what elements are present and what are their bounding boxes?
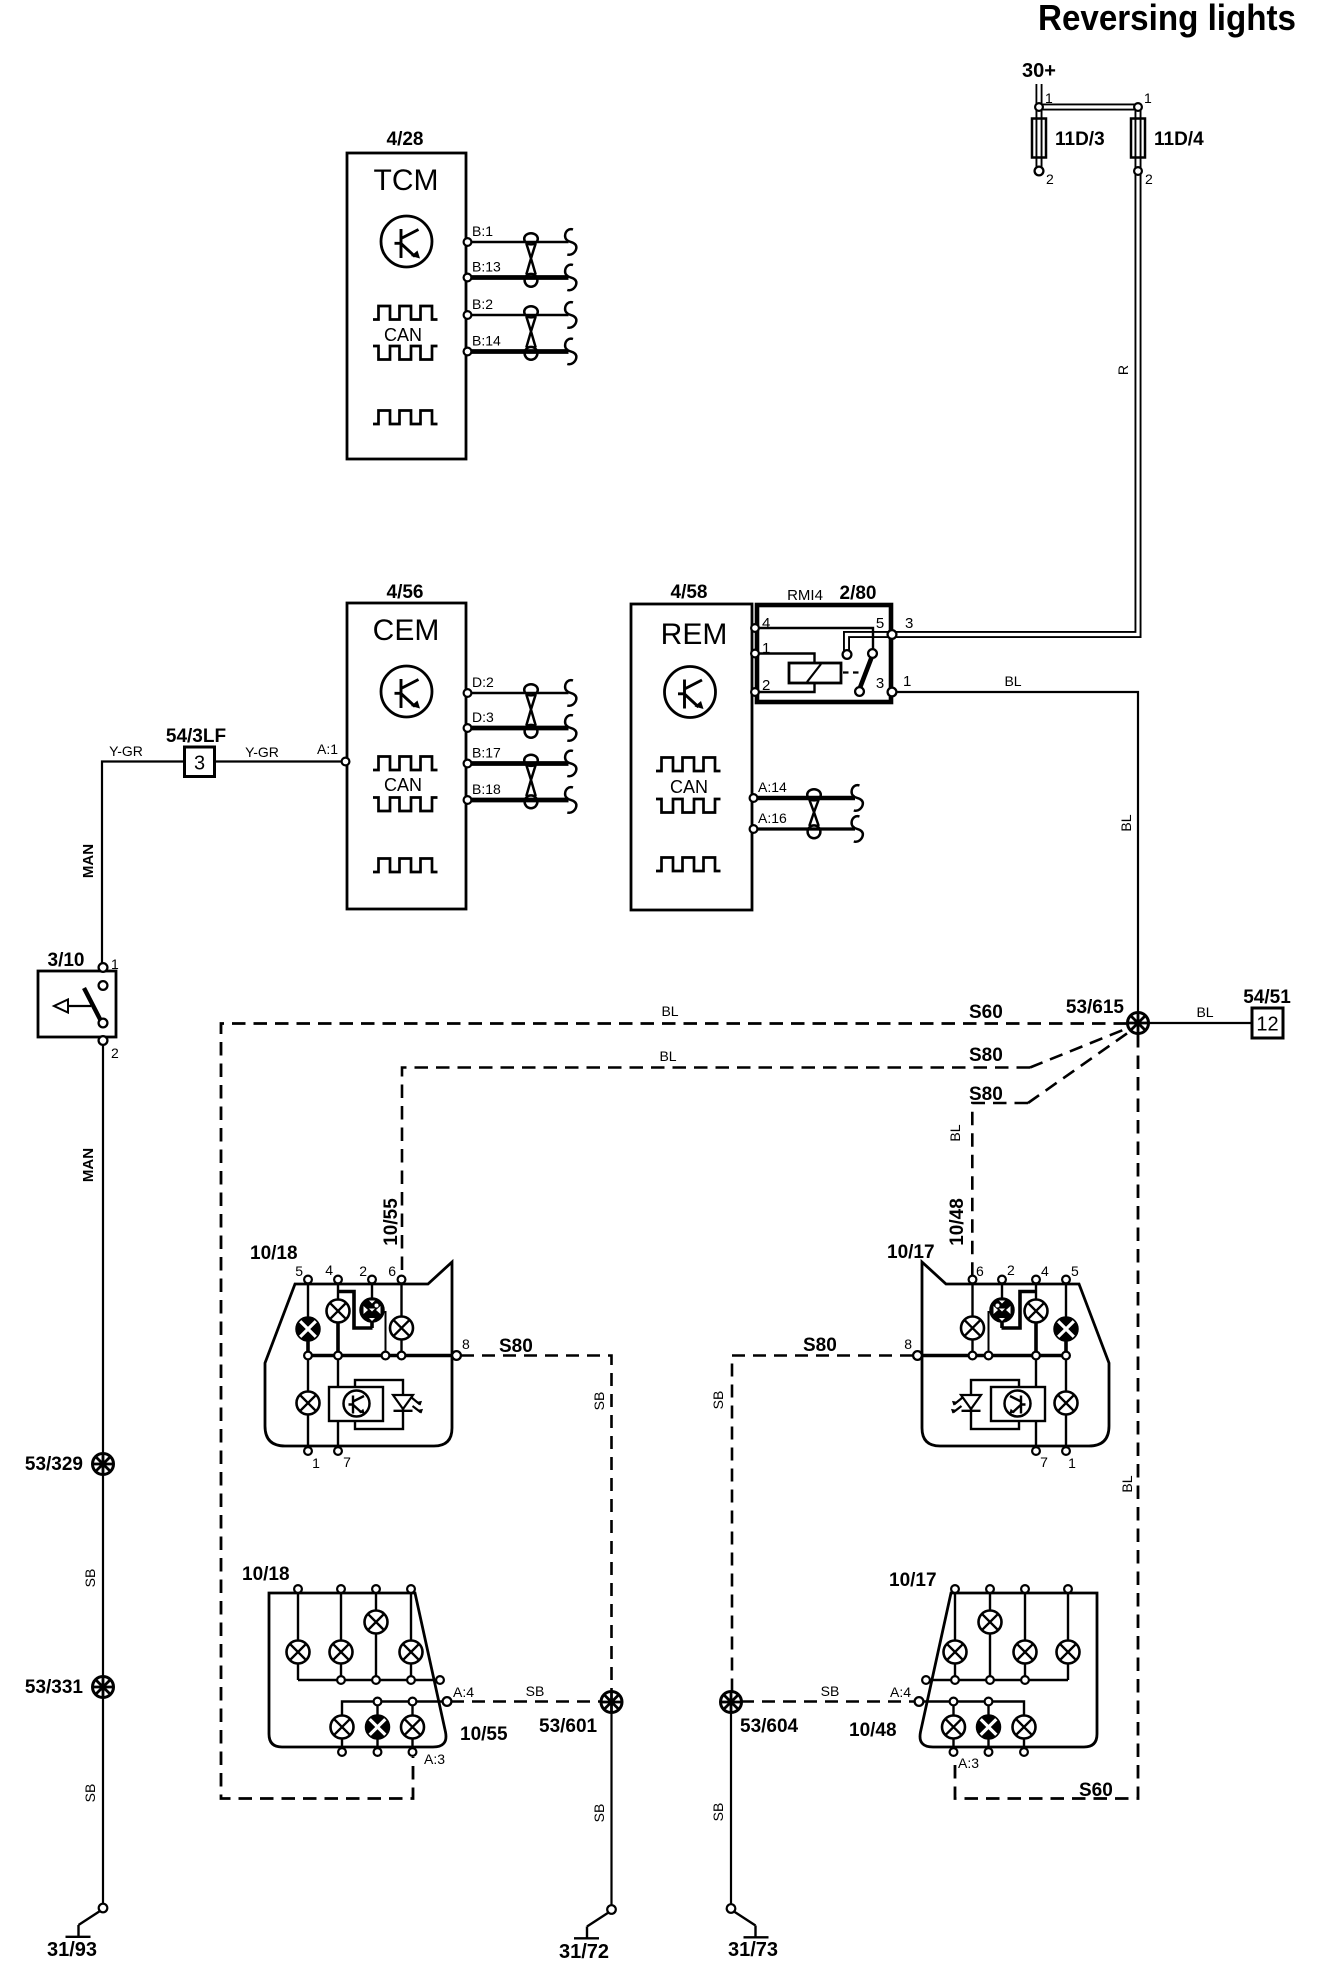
svg-text:53/329: 53/329 <box>25 1454 83 1475</box>
svg-text:S60: S60 <box>969 1002 1003 1023</box>
svg-text:BL: BL <box>1118 814 1134 831</box>
svg-text:CEM: CEM <box>373 614 440 647</box>
twisted pair B:2/B:14 <box>524 306 538 360</box>
pin B:1 <box>464 238 472 246</box>
splice 53/331 <box>93 1677 114 1698</box>
svg-text:RMI4: RMI4 <box>787 587 823 604</box>
svg-text:2: 2 <box>1046 171 1054 187</box>
fuse 11D/4 <box>1131 119 1145 158</box>
node 1 (left fuse top) <box>1035 103 1043 111</box>
svg-text:10/55: 10/55 <box>381 1198 402 1246</box>
pins on REM edge <box>751 624 759 632</box>
svg-text:B:2: B:2 <box>472 296 493 312</box>
svg-text:Y-GR: Y-GR <box>245 744 279 760</box>
coil-contact dashed link <box>843 671 861 673</box>
svg-text:SB: SB <box>82 1569 98 1588</box>
svg-text:SB: SB <box>526 1683 545 1699</box>
svg-text:3/10: 3/10 <box>48 950 85 971</box>
pin B:13 <box>464 274 472 282</box>
svg-text:BL: BL <box>1196 1004 1213 1020</box>
wire REM 2 to coil <box>757 683 815 692</box>
ground 31/93 <box>66 1904 108 1937</box>
svg-text:10/48: 10/48 <box>849 1720 897 1741</box>
svg-text:53/331: 53/331 <box>25 1677 84 1698</box>
svg-text:31/93: 31/93 <box>47 1939 97 1961</box>
svg-text:30+: 30+ <box>1022 60 1056 82</box>
wire A:16 <box>754 827 855 830</box>
svg-text:SB: SB <box>710 1391 726 1410</box>
svg-text:SB: SB <box>710 1803 726 1822</box>
wire D:2 <box>468 692 569 695</box>
wire SB to ground <box>730 1713 732 1905</box>
svg-text:B:18: B:18 <box>472 781 501 797</box>
svg-text:11D/3: 11D/3 <box>1055 129 1105 150</box>
svg-text:TCM: TCM <box>374 164 439 197</box>
svg-text:SB: SB <box>821 1683 840 1699</box>
wire Y-GR from switch to CEM A:1 <box>102 762 346 968</box>
svg-text:11D/4: 11D/4 <box>1154 129 1204 150</box>
svg-text:5: 5 <box>876 615 884 632</box>
tail lamp assembly 10/17 (lower right, mirrored) <box>915 1585 1097 1756</box>
ground 31/73 <box>727 1904 769 1937</box>
svg-text:10/17: 10/17 <box>889 1570 937 1591</box>
wire S80 SB dashed to splice 53/604 <box>732 1356 913 1692</box>
svg-text:A:1: A:1 <box>317 741 338 757</box>
wire S80 SB dashed to splice 53/601 <box>461 1356 612 1692</box>
svg-text:Reversing lights: Reversing lights <box>1038 0 1296 38</box>
svg-text:SB: SB <box>591 1804 607 1823</box>
transistor symbol <box>381 216 432 267</box>
wire D:3 <box>468 726 569 731</box>
svg-text:MAN: MAN <box>80 1148 97 1182</box>
wire S80 BL dashed: splice to left lamp pin 6 <box>402 1068 1030 1284</box>
wire end curls <box>565 680 576 706</box>
wire end curls <box>852 785 863 811</box>
svg-text:A:4: A:4 <box>890 1684 911 1700</box>
svg-text:A:3: A:3 <box>424 1751 445 1767</box>
svg-text:SB: SB <box>82 1784 98 1803</box>
fixed contact (from R feed) <box>843 650 852 659</box>
svg-text:10/18: 10/18 <box>242 1564 290 1585</box>
pin 3 on relay edge <box>888 688 897 697</box>
svg-text:S80: S80 <box>969 1084 1003 1105</box>
svg-text:Y-GR: Y-GR <box>109 743 143 759</box>
svg-text:31/73: 31/73 <box>728 1939 778 1961</box>
svg-text:4/58: 4/58 <box>671 582 708 603</box>
splice 53/604 <box>721 1692 742 1713</box>
wire MAN/SB down the left <box>102 1044 104 1904</box>
svg-text:2/80: 2/80 <box>840 583 877 604</box>
wire BL splice to connector 54/51 <box>1148 1022 1252 1024</box>
svg-text:10/18: 10/18 <box>250 1243 298 1264</box>
svg-text:10/55: 10/55 <box>460 1724 508 1745</box>
svg-text:BL: BL <box>947 1124 963 1141</box>
svg-text:6: 6 <box>976 1263 984 1279</box>
wire SB dashed splice 53/604 to lamp A:4 <box>741 1700 915 1703</box>
svg-text:53/615: 53/615 <box>1066 997 1125 1018</box>
svg-text:4/56: 4/56 <box>387 582 424 603</box>
tail lamp assembly 10/18 (upper left) <box>265 1262 461 1455</box>
svg-text:A:14: A:14 <box>758 779 787 795</box>
wire A:14 <box>754 796 855 801</box>
svg-text:4/28: 4/28 <box>387 129 424 150</box>
wire B:18 <box>468 798 569 803</box>
svg-text:REM: REM <box>661 618 728 651</box>
svg-text:54/3LF: 54/3LF <box>166 726 226 747</box>
svg-text:CAN: CAN <box>384 775 422 795</box>
svg-text:B:1: B:1 <box>472 223 493 239</box>
wire REM 4 to relay coil drive <box>757 628 873 649</box>
wire B:17 <box>468 761 569 766</box>
svg-text:B:13: B:13 <box>472 259 501 275</box>
wire B:1 <box>468 241 569 244</box>
svg-text:CAN: CAN <box>384 325 422 345</box>
relay contact arm <box>860 655 873 689</box>
wire S80 BL dashed: splice to right lamp pin 6 <box>972 1103 1028 1283</box>
splice 53/615 <box>1128 1013 1149 1034</box>
svg-text:4: 4 <box>325 1262 333 1278</box>
pin A:1 <box>342 758 350 766</box>
svg-text:B:14: B:14 <box>472 333 501 349</box>
pin A:16 <box>750 825 758 833</box>
pin B:17 <box>464 760 472 768</box>
pin B:18 <box>464 796 472 804</box>
svg-text:1: 1 <box>111 956 119 972</box>
svg-text:S80: S80 <box>499 1336 533 1357</box>
svg-text:2: 2 <box>1145 171 1153 187</box>
manual actuator symbol <box>68 1005 91 1007</box>
svg-text:3: 3 <box>194 753 205 775</box>
svg-text:BL: BL <box>1004 673 1021 689</box>
wire R (hollow double-line) from 30+ through fuses to relay pin 5 <box>847 84 1139 651</box>
svg-text:7: 7 <box>343 1454 351 1470</box>
wire B:14 <box>468 349 569 354</box>
splice 53/329 <box>93 1454 114 1475</box>
svg-text:BL: BL <box>1119 1475 1135 1492</box>
svg-text:31/72: 31/72 <box>559 1941 609 1963</box>
twisted pair D:2/D:3 <box>524 684 538 738</box>
svg-text:S60: S60 <box>1079 1780 1113 1801</box>
node 2 (right fuse bottom) <box>1134 167 1142 175</box>
wire end curls <box>565 229 576 255</box>
wire SB dashed lamp A:4 to splice 53/601 <box>451 1700 601 1703</box>
twisted pair B:17/B:18 <box>524 755 538 809</box>
node 1 (right fuse top) <box>1134 103 1142 111</box>
svg-text:BL: BL <box>659 1048 676 1064</box>
svg-text:1: 1 <box>1068 1455 1076 1471</box>
tail lamp assembly 10/17 (upper right, mirrored) <box>913 1262 1109 1455</box>
svg-text:2: 2 <box>111 1045 119 1061</box>
wire fuse 11D/3 leg <box>1036 104 1043 167</box>
transistor symbol <box>381 666 432 717</box>
pin D:2 <box>464 689 472 697</box>
svg-text:S80: S80 <box>969 1045 1003 1066</box>
svg-text:1: 1 <box>1144 90 1152 106</box>
CAN symbol <box>373 757 438 771</box>
svg-text:4: 4 <box>1041 1263 1049 1279</box>
svg-text:1: 1 <box>903 673 911 690</box>
transistor symbol <box>665 667 716 718</box>
svg-text:6: 6 <box>388 1263 396 1279</box>
wire relay 3 output, BL <box>893 692 1138 1013</box>
wire SB to ground <box>610 1713 612 1906</box>
svg-text:10/48: 10/48 <box>947 1198 968 1246</box>
wire S60 BL dashed: splice down to right lamp A:3 <box>955 1034 1138 1799</box>
svg-text:53/601: 53/601 <box>539 1716 598 1737</box>
pin B:14 <box>464 348 472 356</box>
wire REM 1 to coil <box>757 654 815 664</box>
wire S60 BL dashed: splice to left lamp A:3 <box>221 1024 1127 1799</box>
svg-text:SB: SB <box>591 1392 607 1411</box>
svg-text:7: 7 <box>1040 1454 1048 1470</box>
svg-text:A:3: A:3 <box>958 1755 979 1771</box>
svg-text:5: 5 <box>295 1263 303 1279</box>
svg-text:8: 8 <box>904 1336 912 1352</box>
svg-text:2: 2 <box>1007 1262 1015 1278</box>
tail lamp assembly 10/18 (lower left) <box>269 1585 451 1756</box>
splice 53/601 <box>601 1692 622 1713</box>
pin A:14 <box>750 794 758 802</box>
svg-text:2: 2 <box>359 1263 367 1279</box>
wire B:13 <box>468 275 569 280</box>
svg-text:MAN: MAN <box>80 844 97 878</box>
relay coil <box>789 663 841 683</box>
svg-text:S80: S80 <box>803 1335 837 1356</box>
svg-text:4: 4 <box>762 615 770 632</box>
svg-text:CAN: CAN <box>670 777 708 797</box>
svg-text:R: R <box>1115 365 1131 375</box>
svg-text:A:16: A:16 <box>758 810 787 826</box>
svg-text:B:17: B:17 <box>472 745 501 761</box>
svg-text:53/604: 53/604 <box>740 1716 799 1737</box>
terminal 2 (left fuse bottom) <box>1035 167 1044 176</box>
CAN symbol <box>373 306 438 320</box>
CAN symbol <box>656 758 721 772</box>
svg-text:A:4: A:4 <box>453 1684 474 1700</box>
svg-text:D:3: D:3 <box>472 709 494 725</box>
svg-text:BL: BL <box>661 1003 678 1019</box>
switch contacts <box>99 981 108 990</box>
pin B:2 <box>464 311 472 319</box>
svg-text:3: 3 <box>905 615 913 632</box>
svg-text:54/51: 54/51 <box>1243 987 1291 1008</box>
pin 5 on relay edge <box>888 630 897 639</box>
wire B:2 <box>468 314 569 317</box>
twisted pair A:14/A:16 <box>807 789 821 838</box>
svg-text:10/17: 10/17 <box>887 1242 935 1263</box>
svg-text:1: 1 <box>1045 90 1053 106</box>
svg-text:3: 3 <box>876 675 884 692</box>
svg-text:8: 8 <box>462 1336 470 1352</box>
svg-text:12: 12 <box>1256 1014 1278 1036</box>
pin D:3 <box>464 724 472 732</box>
svg-text:5: 5 <box>1071 1263 1079 1279</box>
svg-text:1: 1 <box>312 1455 320 1471</box>
fuse 11D/3 <box>1032 119 1046 158</box>
ground 31/72 <box>574 1905 616 1938</box>
twisted pair B:1/B:13 <box>524 233 538 287</box>
svg-text:D:2: D:2 <box>472 674 494 690</box>
